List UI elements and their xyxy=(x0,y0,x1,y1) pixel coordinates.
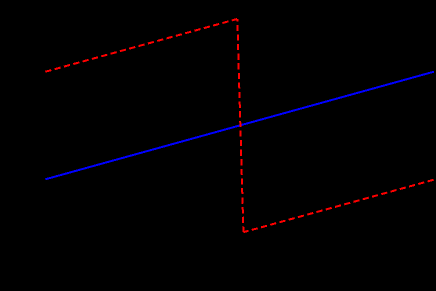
red dashed line, rising segment before wrap xyxy=(45,19,237,72)
red dashed line, rising segment after wrap xyxy=(243,180,434,233)
red dashed line, steep wrap (discontinuity) segment xyxy=(237,19,243,232)
blue solid line (unwrapped phase curve) xyxy=(45,72,434,180)
